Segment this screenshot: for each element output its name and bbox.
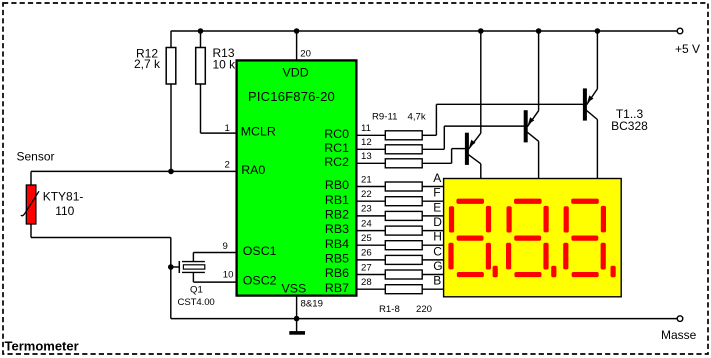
wire segment A to display (422, 186, 443, 188)
svg-text:Sensor: Sensor (17, 150, 55, 164)
svg-text:OSC1: OSC1 (243, 244, 277, 258)
svg-text:C: C (433, 244, 442, 258)
svg-text:RB1: RB1 (325, 193, 349, 207)
wire T1 emitter (480, 31, 482, 133)
svg-text:R1-8: R1-8 (379, 304, 400, 315)
resonator Q1 top electrode (182, 261, 205, 263)
svg-text:VDD: VDD (283, 65, 309, 79)
svg-text:13: 13 (361, 151, 372, 162)
svg-text:RB0: RB0 (325, 178, 349, 192)
svg-text:B: B (433, 274, 441, 288)
wire sensor bottom lead (30, 224, 32, 238)
svg-text:A: A (433, 171, 441, 185)
wire pin 13 (356, 162, 385, 164)
resistor R5 220 body (385, 241, 422, 250)
display digit 2 (506, 199, 556, 278)
wire pin 21 (356, 186, 385, 188)
wire +5V top rail (171, 30, 678, 32)
svg-text:PIC16F876-20: PIC16F876-20 (248, 89, 335, 104)
node T3 emitter rail junction (595, 28, 601, 34)
svg-text:E: E (433, 200, 441, 214)
sensor KTY81-110 body (26, 185, 36, 224)
wire RC1 to T2 base (422, 148, 444, 150)
svg-text:Termometer: Termometer (5, 339, 79, 354)
svg-text:Q1: Q1 (190, 284, 203, 295)
node R13 top rail junction (198, 28, 204, 34)
resistor R13 (196, 48, 206, 85)
svg-text:4,7k: 4,7k (408, 112, 426, 123)
svg-text:RB7: RB7 (325, 281, 349, 295)
svg-text:21: 21 (361, 174, 372, 185)
wire pin 24 (356, 230, 385, 232)
svg-text:RB4: RB4 (325, 237, 349, 251)
wire pin 23 (356, 215, 385, 217)
resistor R6 220 body (385, 255, 422, 264)
svg-text:25: 25 (361, 233, 372, 244)
wire OSC2 pin 10 (192, 272, 194, 282)
wire T2 emitter (538, 31, 540, 111)
node resonator junction (168, 264, 174, 270)
wire segment H to display (422, 244, 443, 246)
wire pin 12 (356, 148, 385, 150)
wire VSS lead pins 8,19 (296, 296, 298, 319)
node T1 emitter rail junction (478, 28, 484, 34)
resistor R4 220 body (385, 226, 422, 235)
svg-text:RC0: RC0 (324, 127, 349, 141)
wire resonator lead (171, 266, 180, 268)
svg-text:F: F (433, 186, 440, 200)
svg-text:OSC2: OSC2 (243, 274, 277, 288)
svg-text:22: 22 (361, 189, 372, 200)
node T2 emitter rail junction (536, 28, 542, 34)
ground symbol (296, 319, 298, 332)
svg-text:20: 20 (300, 49, 311, 60)
resistor R1 220 body (385, 182, 422, 191)
resistor R2 220 body (385, 197, 422, 206)
svg-text:220: 220 (416, 304, 432, 315)
display digit 3 (563, 199, 616, 278)
svg-text:1: 1 (225, 123, 230, 134)
svg-text:RB2: RB2 (325, 208, 349, 222)
svg-text:110: 110 (55, 204, 74, 218)
wire segment B to display (422, 288, 443, 290)
wire OSC1 pin 9 (192, 253, 194, 262)
transistor T3 BC328 (583, 88, 587, 120)
svg-text:KTY81-: KTY81- (43, 189, 84, 203)
svg-text:9: 9 (223, 241, 228, 252)
transistor T2 BC328 (524, 110, 528, 142)
svg-text:10: 10 (223, 270, 234, 281)
sensor diagonal stroke (21, 191, 39, 216)
svg-text:VSS: VSS (282, 281, 307, 295)
wire pin 22 (356, 200, 385, 202)
wire pin 27 (356, 274, 385, 276)
wire segment E to display (422, 215, 443, 217)
wire sensor top lead / RA0 net (30, 171, 32, 185)
wire VDD pin 20 lead (296, 31, 298, 60)
wire left ground drop (170, 238, 172, 319)
svg-text:+5 V: +5 V (675, 42, 700, 56)
wire segment F to display (422, 200, 443, 202)
resistor R11 4,7k body (385, 159, 422, 168)
svg-text:RC2: RC2 (324, 155, 349, 169)
wire T2 collector (527, 132, 538, 141)
resonator Q1 bottom electrode (182, 271, 205, 273)
resistor R7 220 body (385, 270, 422, 279)
svg-text:H: H (433, 230, 442, 244)
svg-text:RC1: RC1 (324, 141, 349, 155)
svg-text:D: D (433, 215, 442, 229)
svg-text:R9-11: R9-11 (372, 112, 397, 123)
svg-text:CST4.00: CST4.00 (178, 297, 215, 308)
svg-text:RB3: RB3 (325, 222, 349, 236)
wire pin 11 (356, 134, 385, 136)
svg-text:26: 26 (361, 248, 372, 259)
svg-text:RA0: RA0 (241, 163, 265, 177)
resistor R9 4,7k body (385, 131, 422, 140)
wire pin 25 (356, 244, 385, 246)
wire R12 bottom lead (170, 84, 172, 171)
node VSS ground junction (294, 316, 300, 322)
resonator Q1 body (183, 265, 204, 269)
7-segment display DS1 (444, 179, 622, 297)
wire ground rail Masse (171, 318, 678, 320)
wire T3 collector (587, 110, 598, 119)
wire RC0 to T3 base (422, 134, 436, 136)
wire T1 collector (469, 155, 481, 164)
wire segment C to display (422, 259, 443, 261)
wire R12 top lead (170, 31, 172, 48)
resistor R8 220 body (385, 285, 422, 294)
wire T3 emitter (596, 31, 598, 89)
svg-text:2,7 k: 2,7 k (134, 57, 161, 71)
resistor R10 4,7k body (385, 145, 422, 154)
svg-text:10 k: 10 k (213, 58, 237, 72)
transistor T1 BC328 (465, 133, 469, 165)
svg-text:12: 12 (361, 137, 372, 148)
node VDD rail junction (294, 28, 300, 34)
svg-text:23: 23 (361, 204, 372, 215)
terminal +5V circle (677, 28, 683, 34)
svg-text:RB5: RB5 (325, 252, 349, 266)
resistor R3 220 body (385, 211, 422, 220)
svg-text:BC328: BC328 (611, 119, 648, 133)
wire pin 26 (356, 259, 385, 261)
svg-text:11: 11 (361, 123, 371, 134)
node R12/RA0 junction (168, 169, 174, 175)
svg-text:27: 27 (361, 262, 372, 273)
wire RC2 to T1 base (422, 162, 451, 164)
svg-text:2: 2 (225, 160, 230, 171)
wire segment D to display (422, 230, 443, 232)
svg-text:RB6: RB6 (325, 266, 349, 280)
svg-text:MCLR: MCLR (241, 125, 276, 139)
wire R13 top lead (200, 31, 202, 48)
wire R13 to MCLR pin 1 (200, 84, 202, 133)
terminal Masse circle (677, 316, 683, 322)
svg-text:G: G (433, 259, 442, 273)
op-amp U1 PIC16F876-20 chip body (237, 60, 357, 295)
wire segment G to display (422, 274, 443, 276)
resonator Q1 left plate (178, 261, 180, 273)
svg-text:8&19: 8&19 (301, 299, 323, 310)
wire pin 28 (356, 288, 385, 290)
resistor R12 (166, 48, 176, 85)
svg-text:28: 28 (361, 277, 372, 288)
svg-text:Masse: Masse (661, 328, 697, 342)
display digit 1 (448, 199, 497, 278)
svg-text:24: 24 (361, 218, 372, 229)
